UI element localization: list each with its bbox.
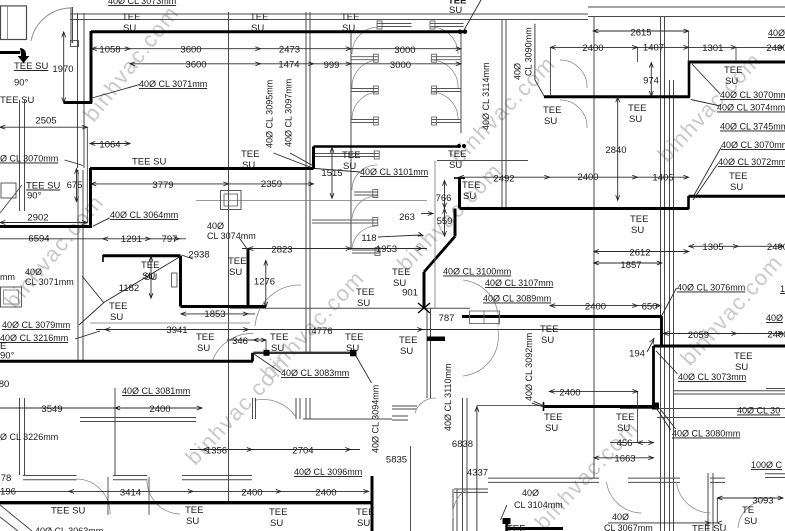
door arc corridor1	[255, 285, 301, 326]
ramp diagonal 1	[0, 505, 32, 531]
leader 3074mm mid	[240, 239, 248, 250]
svg-text:TEE: TEE	[543, 105, 561, 116]
svg-text:1405: 1405	[652, 173, 673, 184]
svg-text:CL 3071mm: CL 3071mm	[25, 277, 74, 287]
dim vertical 6838/4337	[476, 406, 478, 531]
dim line 2400 y391	[549, 390, 637, 392]
duct arrow left TEE SU 90	[0, 51, 20, 54]
svg-text:1953: 1953	[376, 244, 397, 255]
bottom wall y478 seg	[628, 477, 680, 479]
door arc bottom3b	[677, 482, 711, 513]
dim 1970 vertical	[63, 32, 65, 103]
svg-text:SU: SU	[730, 182, 743, 193]
duct U left leg x180	[179, 256, 182, 307]
wall y492	[454, 491, 488, 493]
wall vertical x84	[83, 13, 85, 168]
dim ext x550	[550, 47, 552, 96]
wall vertical x228	[228, 12, 230, 502]
leader 3097mm	[290, 153, 314, 166]
svg-text:100Ø C: 100Ø C	[751, 460, 783, 470]
svg-text:40Ø CL 3076mm: 40Ø CL 3076mm	[677, 283, 745, 293]
bottom wall y479 seg	[113, 479, 147, 481]
svg-text:CL 3067mm: CL 3067mm	[604, 523, 653, 531]
svg-text:SU: SU	[270, 518, 283, 529]
door arc bottom5	[738, 500, 768, 528]
svg-text:TEE: TEE	[341, 12, 359, 23]
svg-text:TEE: TEE	[196, 332, 214, 343]
svg-text:TEE: TEE	[392, 267, 410, 278]
svg-text:TEE: TEE	[616, 412, 634, 423]
svg-text:TEE: TEE	[448, 149, 466, 160]
dim 1515 vertical	[331, 148, 333, 199]
dim 974 vertical	[650, 63, 652, 97]
dim ext x637 low	[637, 391, 639, 442]
door arc x256	[256, 399, 296, 417]
svg-text:40Ø CL 3073mm: 40Ø CL 3073mm	[678, 372, 746, 382]
bottom wall y477 right	[765, 477, 785, 479]
svg-text:2840: 2840	[605, 145, 626, 156]
wall y421 left	[80, 421, 196, 423]
wall top right line1	[588, 6, 785, 8]
svg-text:4776: 4776	[311, 326, 332, 337]
right room arc2	[560, 100, 587, 128]
wall vertical x310 lower	[309, 398, 311, 419]
svg-text:2059: 2059	[688, 330, 709, 341]
svg-text:SU: SU	[541, 335, 554, 346]
room door arcs row1	[352, 60, 378, 88]
wall top corridor line2	[70, 19, 588, 21]
leader 3070mm mid	[693, 148, 721, 198]
wall vertical x660	[660, 16, 662, 531]
svg-text:4337: 4337	[467, 468, 488, 479]
svg-text:2823: 2823	[271, 245, 292, 256]
svg-text:SU: SU	[251, 23, 264, 34]
bottom wall y482 seg	[628, 481, 680, 483]
shelf fixtures top rooms	[377, 23, 412, 25]
dim line 2612	[594, 251, 689, 253]
svg-text:2704: 2704	[292, 446, 313, 457]
dim ext x688	[688, 31, 690, 62]
svg-text:6594: 6594	[28, 234, 49, 245]
svg-text:TEE SU: TEE SU	[0, 95, 34, 106]
dim ext x637	[636, 47, 638, 62]
wall y408 right	[620, 408, 785, 410]
svg-text:SU: SU	[144, 272, 157, 283]
dim 766 vertical	[444, 181, 446, 209]
svg-text:TEE: TEE	[228, 256, 246, 267]
wall vertical x453	[452, 489, 454, 531]
svg-text:650: 650	[642, 302, 658, 313]
dim line 2059/2400	[664, 333, 784, 335]
wall stub y406	[392, 405, 417, 407]
dim line 2823/1953	[242, 248, 427, 250]
bottom wall y482 seg	[710, 481, 725, 483]
leader 3076mm	[662, 288, 677, 316]
wall vertical x467	[466, 398, 468, 531]
leader 3074mm top	[691, 100, 719, 106]
duct diagonal	[424, 236, 455, 272]
svg-text:3600: 3600	[180, 45, 201, 56]
svg-text:TEE SU: TEE SU	[692, 524, 726, 531]
svg-text:974: 974	[643, 76, 659, 87]
wall vertical x19 lower	[19, 398, 21, 475]
duct step x689	[688, 61, 691, 98]
svg-text:TEE: TEE	[109, 301, 127, 312]
wall stub y420	[392, 419, 408, 421]
wall vertical x502	[501, 19, 503, 208]
svg-text:TEE SU: TEE SU	[132, 157, 166, 168]
dim line 40CL3067	[608, 522, 717, 524]
duct y96 run	[544, 95, 690, 98]
door arc top-left	[31, 8, 71, 41]
svg-text:40Ø: 40Ø	[612, 512, 629, 522]
room door arcs row2	[352, 165, 377, 190]
left rooms fixtures	[1, 183, 16, 198]
duct y406 run	[544, 405, 657, 408]
wall vertical x594	[593, 16, 595, 478]
svg-text:3093: 3093	[752, 496, 773, 507]
leader 3073mm	[656, 351, 678, 374]
svg-text:40Ø CL 3094mm: 40Ø CL 3094mm	[371, 385, 381, 453]
svg-text:TEE: TEE	[345, 332, 363, 343]
svg-text:263: 263	[399, 212, 415, 223]
duct y316 run	[462, 315, 662, 318]
svg-text:3000: 3000	[394, 45, 415, 56]
leader 3101mm	[315, 169, 360, 173]
duct step x252	[251, 353, 254, 362]
duct vertical x653	[652, 346, 655, 406]
svg-text:40Ø CL 3074mm: 40Ø CL 3074mm	[717, 103, 785, 113]
dim line 346	[227, 339, 266, 341]
dim 675 vertical	[76, 169, 78, 202]
dim line 456	[610, 442, 654, 444]
wall y419	[303, 418, 392, 420]
svg-text:40Ø CL 3092mm: 40Ø CL 3092mm	[524, 333, 534, 401]
svg-text:2612: 2612	[629, 248, 650, 259]
svg-text:456: 456	[617, 438, 633, 449]
svg-text:TEE: TEE	[122, 12, 140, 23]
svg-text:TEE: TEE	[241, 149, 259, 160]
svg-text:194: 194	[629, 349, 645, 360]
svg-text:40Ø: 40Ø	[522, 488, 539, 498]
svg-text:40Ø CL 3110mm: 40Ø CL 3110mm	[443, 363, 453, 431]
svg-text:SU: SU	[544, 116, 557, 127]
svg-text:3779: 3779	[152, 180, 173, 191]
duct step x688	[687, 196, 690, 209]
svg-text:1970: 1970	[52, 64, 73, 75]
svg-text:559: 559	[437, 216, 453, 227]
dim line 2615	[593, 30, 688, 32]
bottom wall y482 seg	[488, 481, 599, 483]
duct vertical x91	[90, 31, 93, 104]
bottom wall y479 seg	[182, 479, 252, 481]
door arc x453	[453, 489, 467, 518]
svg-text:90°: 90°	[14, 78, 29, 89]
svg-text:SU: SU	[186, 516, 199, 527]
duct bottom main y502	[0, 501, 372, 504]
dim line 2400/1407/1301/2400	[551, 46, 784, 48]
svg-text:TEE: TEE	[269, 507, 287, 518]
svg-text:TEE: TEE	[630, 214, 648, 225]
svg-text:TEE: TEE	[507, 524, 525, 531]
thin line y200	[196, 200, 427, 202]
dim line 3549/2400	[0, 407, 202, 409]
wall top corridor line1	[70, 13, 588, 15]
corridor wall y308	[230, 307, 470, 309]
leader 3080mm	[661, 410, 676, 430]
svg-text:CL 3090mm: CL 3090mm	[524, 27, 534, 76]
svg-text:40Ø: 40Ø	[766, 313, 783, 323]
double door arc b	[463, 330, 498, 376]
svg-text:3600: 3600	[185, 60, 206, 71]
wall stub y416	[392, 415, 408, 417]
wall vertical x457	[456, 489, 458, 531]
dim 1857	[594, 262, 662, 264]
duct y352 run	[254, 352, 356, 354]
dim line 3941/4776	[96, 329, 660, 331]
dim line 1058/3600/2473/3000	[92, 48, 462, 50]
svg-text:TEE: TEE	[185, 505, 203, 516]
svg-text:Ø CL 3070mm: Ø CL 3070mm	[0, 154, 58, 164]
svg-text:TEE: TEE	[540, 324, 558, 335]
svg-text:1064: 1064	[99, 140, 120, 151]
duct U bottom y306	[181, 305, 267, 308]
duct top right y62	[689, 61, 785, 64]
duct U left end tick	[102, 255, 104, 262]
svg-text:675: 675	[67, 180, 83, 191]
door arc corridor2	[212, 333, 254, 362]
svg-text:1301: 1301	[702, 43, 723, 54]
ramp diagonal 2	[0, 517, 18, 531]
duct end tick x543	[543, 402, 545, 411]
svg-text:SU: SU	[343, 161, 356, 172]
svg-text:40Ø CL 3216mm: 40Ø CL 3216mm	[0, 333, 68, 343]
svg-text:TEE: TEE	[356, 507, 374, 518]
svg-text:40Ø CL 3083mm: 40Ø CL 3083mm	[281, 368, 349, 378]
svg-text:901: 901	[402, 288, 418, 299]
room divider x461	[460, 31, 462, 133]
leader 3072mm	[693, 164, 718, 201]
dim line 3093	[717, 497, 783, 499]
svg-text:2359: 2359	[261, 179, 282, 190]
leader top duct end	[464, 0, 481, 30]
duct end tick x459	[454, 177, 465, 179]
svg-text:SU: SU	[744, 516, 757, 527]
svg-text:TEE SU: TEE SU	[51, 506, 85, 517]
svg-text:CL 3074mm: CL 3074mm	[207, 231, 256, 241]
svg-text:40Ø: 40Ø	[513, 63, 523, 80]
svg-text:3549: 3549	[41, 404, 62, 415]
duct y196 run	[689, 195, 785, 198]
door arc bottom1	[77, 479, 111, 514]
svg-text:SU: SU	[357, 298, 370, 309]
leader 3080mm b	[656, 407, 671, 430]
svg-text:TEE: TEE	[729, 171, 747, 182]
room wall y160	[437, 160, 528, 162]
wall vertical x669	[669, 80, 671, 531]
duct y226 run	[0, 225, 92, 228]
svg-text:797: 797	[162, 234, 178, 245]
svg-text:2400: 2400	[767, 242, 785, 253]
svg-text:787: 787	[439, 313, 455, 324]
wall x296 stub	[295, 398, 297, 419]
wall vertical x115	[114, 388, 116, 476]
wall vertical x664	[664, 16, 666, 531]
svg-text:40Ø CL 3114mm: 40Ø CL 3114mm	[481, 62, 491, 130]
bottom wall y473 right	[765, 473, 785, 475]
wall x300 stub	[299, 398, 301, 419]
leader 3092mm	[534, 401, 545, 406]
svg-text:80: 80	[0, 379, 9, 390]
wall vertical x24 lower	[24, 398, 26, 475]
svg-text:118: 118	[361, 233, 376, 244]
svg-text:Ø CL 3226mm: Ø CL 3226mm	[0, 432, 58, 442]
svg-text:346: 346	[232, 336, 248, 347]
top-left window room	[1, 6, 27, 40]
wall vertical x24	[24, 100, 26, 211]
svg-text:40Ø CL 3072mm: 40Ø CL 3072mm	[718, 157, 785, 167]
dim ext 346	[265, 340, 267, 352]
svg-text:SU: SU	[271, 343, 284, 354]
leader 3094mm	[356, 356, 372, 383]
svg-text:TEE: TEE	[724, 65, 742, 76]
wall y417 right	[657, 417, 785, 419]
svg-text:SU: SU	[631, 225, 644, 236]
svg-text:1853: 1853	[204, 309, 225, 320]
wall x435	[434, 161, 436, 309]
svg-text:2400: 2400	[767, 330, 785, 341]
svg-text:SU: SU	[617, 423, 630, 434]
wall x255 stub	[255, 398, 257, 419]
svg-text:SU: SU	[449, 5, 462, 16]
duct stub y102	[64, 101, 93, 104]
svg-text:2492: 2492	[493, 174, 514, 185]
svg-text:SU: SU	[242, 160, 255, 171]
svg-text:TEE: TEE	[628, 103, 646, 114]
bottom wall y478 seg	[488, 477, 599, 479]
svg-text:1276: 1276	[254, 277, 275, 288]
room divider x351	[350, 31, 352, 250]
svg-text:TEE: TEE	[342, 150, 360, 161]
leader 3079mm polyline	[79, 257, 180, 326]
bottom wall y479 seg	[23, 479, 77, 481]
leader 3064mm	[93, 218, 110, 227]
svg-text:1305: 1305	[702, 242, 723, 253]
svg-text:2400: 2400	[315, 488, 336, 499]
duct vertical x372	[371, 476, 374, 531]
dim line 2902	[0, 222, 87, 224]
duct y168 run	[90, 167, 314, 170]
svg-text:CL 3104mm: CL 3104mm	[514, 500, 563, 510]
dim ext x717	[716, 498, 718, 522]
wall vertical x83 mid	[82, 170, 84, 361]
leader 3216mm	[75, 331, 100, 339]
duct step x313	[312, 147, 315, 170]
svg-text:3000: 3000	[390, 60, 411, 71]
door leaf x71	[70, 7, 72, 43]
svg-text:1474: 1474	[278, 60, 299, 71]
dim line 1853	[181, 313, 255, 315]
svg-text:40Ø: 40Ø	[25, 267, 42, 277]
dim line 2505	[0, 126, 87, 128]
dim line 3779/2359	[91, 183, 314, 185]
duct vertical x455 down	[454, 209, 457, 237]
svg-text:2400: 2400	[241, 488, 262, 499]
svg-text:SU: SU	[123, 23, 136, 34]
leader 3104mm	[501, 505, 507, 520]
dim line 1064	[90, 143, 130, 145]
dim ext y405	[477, 405, 543, 407]
wall y388 right	[766, 388, 785, 390]
svg-text:SU: SU	[545, 423, 558, 434]
svg-text:1182: 1182	[119, 283, 139, 294]
svg-text:90°: 90°	[27, 191, 42, 202]
svg-text:1: 1	[780, 284, 785, 294]
svg-text:TEE: TEE	[356, 287, 374, 298]
wall vertical x427	[426, 308, 428, 398]
svg-text:TEE: TEE	[544, 412, 562, 423]
wardrobe fixture	[470, 311, 500, 324]
svg-text:SU: SU	[629, 114, 642, 125]
svg-text:90°: 90°	[0, 351, 15, 362]
svg-text:2400: 2400	[149, 404, 170, 415]
svg-text:40Ø CL 30: 40Ø CL 30	[737, 406, 780, 416]
svg-text:SU: SU	[342, 23, 355, 34]
shelf fixtures mid rooms	[315, 153, 379, 155]
svg-text:40Ø: 40Ø	[207, 221, 224, 231]
svg-text:2400: 2400	[766, 43, 785, 54]
dim line 3414/2400/2400	[0, 490, 369, 492]
svg-text:40Ø CL 3079mm: 40Ø CL 3079mm	[2, 320, 70, 330]
svg-text:2615: 2615	[630, 28, 651, 39]
wall y390 right	[673, 390, 785, 392]
bottom wall y475 seg	[182, 475, 252, 477]
svg-text:TEE: TEE	[734, 351, 752, 362]
svg-text:SU: SU	[463, 191, 476, 202]
window glazing	[7, 6, 9, 40]
wall vertical x77	[77, 13, 79, 168]
dim ext x87	[86, 127, 88, 222]
duct vertical x459	[458, 178, 461, 209]
wall vertical x306 lower	[305, 398, 307, 419]
duct step x661	[660, 316, 663, 346]
svg-text:2400: 2400	[585, 302, 606, 313]
svg-text:40Ø CL 3070mm: 40Ø CL 3070mm	[721, 140, 785, 150]
svg-text:40Ø CL 3064mm: 40Ø CL 3064mm	[110, 210, 178, 220]
svg-text:SU: SU	[346, 343, 359, 354]
svg-text:40Ø CL 3071mm: 40Ø CL 3071mm	[139, 79, 207, 89]
door leaf x72	[72, 7, 74, 43]
svg-text:SU: SU	[110, 312, 123, 323]
svg-text:40Ø CL 3095mm: 40Ø CL 3095mm	[265, 80, 275, 148]
door arc bottom3	[607, 482, 642, 513]
svg-text:TEE: TEE	[399, 335, 417, 346]
svg-text:SU: SU	[725, 76, 738, 87]
diagonal fixture	[0, 185, 22, 213]
wall vertical x462	[462, 398, 464, 531]
svg-text:40Ø CL 3080mm: 40Ø CL 3080mm	[672, 429, 740, 439]
duct y361 run	[0, 360, 253, 363]
thin line y323	[90, 322, 250, 324]
svg-text:2400: 2400	[577, 172, 598, 183]
svg-text:40Ø CL 3097mm: 40Ø CL 3097mm	[284, 79, 294, 147]
dim 1276 vertical	[265, 260, 267, 307]
dim line 2492/2400/1405	[459, 176, 689, 178]
wall vertical x506	[505, 19, 507, 208]
duct vertical x424	[423, 272, 426, 309]
leader 2938	[182, 255, 194, 259]
dim 2840 vertical	[617, 97, 619, 200]
